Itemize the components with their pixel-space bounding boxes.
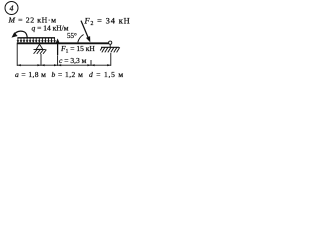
svg-text:4: 4 bbox=[10, 4, 14, 13]
svg-text:q = 14 кН/м: q = 14 кН/м bbox=[32, 24, 69, 33]
svg-text:a = 1,8 м: a = 1,8 м bbox=[15, 70, 46, 79]
svg-text:c = 3,3 м: c = 3,3 м bbox=[59, 56, 87, 65]
svg-text:F1 = 15 кН: F1 = 15 кН bbox=[60, 44, 95, 55]
svg-text:d = 1,5 м: d = 1,5 м bbox=[89, 70, 124, 79]
svg-text:b = 1,2 м: b = 1,2 м bbox=[52, 70, 84, 79]
svg-text:55°: 55° bbox=[67, 32, 77, 40]
